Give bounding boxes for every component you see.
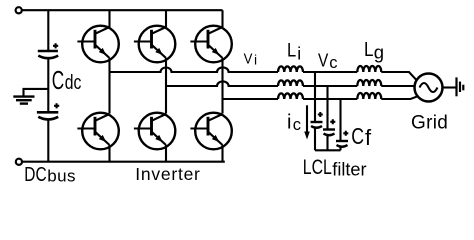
wire bottom rail [22,161,224,163]
wire DC bus vertical [47,10,49,162]
svg-text:i: i [297,43,301,63]
wire phase B mid [303,85,357,87]
wire leg1 bottom [108,145,110,162]
transistor Q4 [77,113,118,150]
grid source G1 [415,74,443,102]
svg-text:DC: DC [24,164,46,186]
inductor Li phase B [278,80,303,86]
wire leg1 top [108,10,110,27]
wire grid to ground [443,86,457,88]
wire top rail [22,9,222,11]
svg-text:LCL: LCL [303,156,332,179]
inductor Lg phase B [357,80,381,86]
svg-text:filter: filter [332,160,366,180]
svg-text:C: C [52,67,64,95]
svg-text:L: L [364,39,374,61]
wire star point [315,149,341,151]
inductor Lg phase C [357,93,381,99]
wire phase A mid [303,71,357,73]
wire Cf branch A [314,72,316,150]
transistor Q1 [77,26,118,63]
inductor Lg phase A [357,66,381,72]
wire phase A [110,67,279,72]
transistor Q3 [190,26,231,63]
wire leg2 top [165,10,167,27]
svg-text:L: L [287,40,296,62]
wire phase B [166,81,278,86]
wire leg2 bottom [165,145,167,162]
sine wave [420,83,438,92]
ground grid [457,77,464,96]
ground [13,89,48,104]
capacitor Cdc bottom [37,103,59,119]
wire leg3 bottom [221,145,223,162]
svg-text:i: i [287,112,291,134]
svg-text:i: i [254,52,257,68]
svg-text:g: g [374,41,384,62]
capacitor Cf C [336,131,348,147]
capacitor Cf A [311,112,323,128]
terminal DC+ [16,7,22,13]
inductor Li phase C [278,93,303,99]
svg-text:C: C [351,123,364,149]
wire phase B to grid [381,85,414,87]
svg-text:c: c [293,116,301,134]
wire leg1 mid [108,58,110,114]
capacitor Cf B [323,119,335,135]
wire phase C to grid [381,96,418,99]
wire leg2 mid [165,58,167,114]
wire Cf branch B [326,86,328,150]
inductor Li phase A [278,66,303,72]
transistor Q6 [190,113,231,150]
svg-text:bus: bus [47,167,76,186]
capacitor Cdc top [38,43,58,58]
svg-text:Inverter: Inverter [135,164,200,184]
wire leg3 mid [221,58,223,114]
wire phase A to grid [381,72,416,80]
transistor Q2 [134,26,175,63]
svg-text:c: c [329,54,337,72]
svg-text:Grid: Grid [411,113,448,134]
svg-text:dc: dc [65,72,82,94]
wire leg3 top [221,10,223,27]
svg-text:f: f [365,125,372,150]
wire Cf branch C [339,99,341,150]
svg-text:V: V [318,50,329,71]
wire phase C [223,98,279,100]
terminal DC- [16,159,22,165]
arrow ic [306,105,308,133]
transistor Q5 [134,113,175,150]
wire phase C mid [303,98,357,100]
svg-text:V: V [244,51,253,67]
